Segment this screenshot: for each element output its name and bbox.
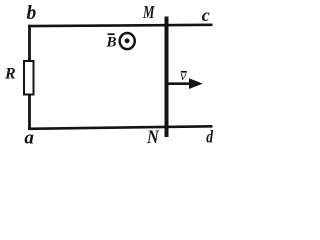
svg-text:B: B [106, 35, 117, 51]
svg-text:b: b [27, 3, 37, 24]
svg-text:M: M [142, 2, 155, 22]
svg-text:d: d [206, 127, 214, 147]
svg-text:v: v [180, 69, 187, 84]
svg-text:N: N [146, 127, 160, 148]
svg-text:c: c [202, 5, 210, 25]
svg-text:R: R [4, 66, 16, 83]
svg-text:a: a [24, 127, 34, 148]
